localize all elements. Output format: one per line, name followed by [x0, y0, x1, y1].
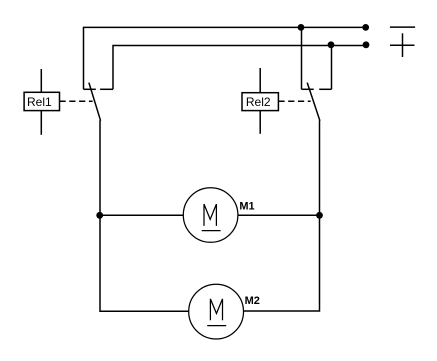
wire M1 row left segment — [100, 214, 183, 216]
wire drop from rail 1 to Rel2 left throw — [301, 27, 303, 89]
node junction right pole / M1 row — [316, 212, 323, 219]
label Rel1 — [27, 95, 52, 109]
wire M1 row right segment — [238, 214, 320, 216]
wire Rel2 pole down to M2 row (bottom-right corner) — [244, 215, 320, 311]
wire drop from rail 2 to Rel2 right throw — [331, 45, 333, 90]
node rail 1 right terminal — [362, 24, 369, 31]
wire Rel1 pole down to M1 row — [99, 120, 101, 215]
contact Rel1 (changeover contact: fixed feet and moving arm) — [84, 83, 114, 121]
wire rail 1 (top supply rail with left drop) — [84, 27, 366, 89]
node junction rail 1 / Rel2 drop — [298, 24, 305, 31]
svg-text:M2: M2 — [245, 295, 260, 307]
node junction left pole / M1 row — [96, 212, 103, 219]
motor M1 (circle with M glyph and underline) — [183, 188, 238, 243]
wire Rel2 pole down to M1 row — [319, 120, 321, 215]
relay coil Rel1 (armature line, box and label) — [24, 69, 59, 135]
label M1 — [239, 200, 254, 212]
dashed link Rel1 coil to contact — [60, 100, 93, 102]
supply symbol (minus bar and plus cross) — [390, 27, 415, 57]
contact Rel2 (changeover contact: fixed feet and moving arm) — [302, 83, 332, 121]
relay coil Rel2 (armature line, box and label) — [242, 68, 278, 134]
wire rail 2 (second supply rail with left drop) — [113, 46, 366, 90]
wire Rel1 pole down to M2 row (bottom-left corner) — [100, 215, 189, 311]
svg-text:M1: M1 — [239, 200, 254, 212]
svg-text:Rel2: Rel2 — [246, 95, 271, 109]
dashed link Rel2 coil to contact — [278, 100, 310, 102]
node rail 2 right terminal — [363, 41, 370, 48]
svg-text:Rel1: Rel1 — [27, 95, 52, 109]
node junction rail 2 / Rel2 drop — [328, 41, 335, 48]
label M2 — [245, 295, 260, 307]
label Rel2 — [246, 95, 271, 109]
motor M2 (circle with M glyph and underline) — [189, 284, 244, 339]
